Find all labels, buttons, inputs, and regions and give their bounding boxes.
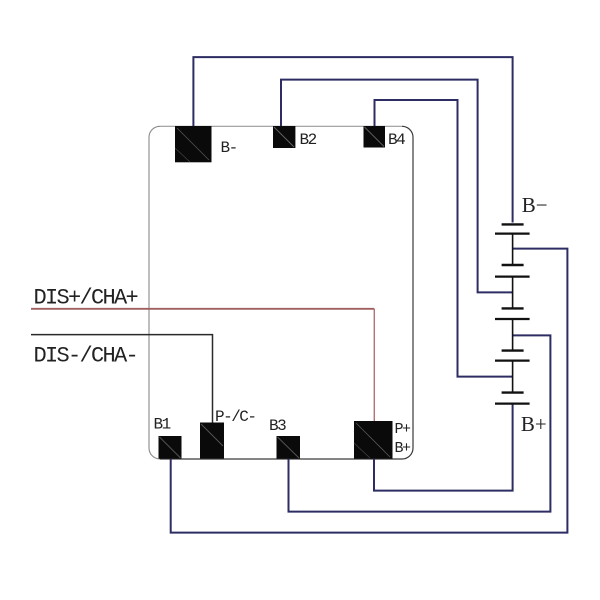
wire B4 net: pad B4 up, right, down to junction J4 — [375, 100, 513, 377]
wire B2 net: pad B2 up, right, down to junction J2 — [281, 80, 513, 293]
svg-text:B−: B− — [522, 193, 548, 217]
pad B2 — [273, 126, 295, 148]
pad B4 — [364, 126, 386, 148]
pad B- — [175, 126, 212, 162]
svg-text:B1: B1 — [154, 415, 171, 433]
svg-text:P-/C-: P-/C- — [215, 408, 256, 426]
wire B+ net: pad P+ down, right, up to battery bottom — [374, 404, 513, 491]
svg-text:B-: B- — [221, 139, 237, 157]
wire DIS+/CHA+ net (red): left edge to P+ pad — [31, 308, 374, 310]
battery cell BT2 — [495, 265, 530, 308]
svg-text:B4: B4 — [388, 131, 405, 149]
pad P+/B+ — [354, 421, 393, 459]
svg-text:DIS-/CHA-: DIS-/CHA- — [34, 343, 138, 368]
battery cell BT3 — [495, 308, 530, 350]
wire B3 net: pad B3 down, right, up to junction J3 — [289, 335, 551, 511]
svg-text:B3: B3 — [269, 417, 286, 435]
wire B- net: pad B- up and right to battery top — [193, 57, 512, 222]
wire B1 net: pad B1 down, right, up to junction J1 — [171, 249, 568, 533]
svg-text:DIS+/CHA+: DIS+/CHA+ — [34, 285, 138, 310]
battery cell BT4 — [495, 351, 530, 393]
BMS board outline — [149, 126, 413, 459]
pad B3 — [277, 436, 301, 459]
svg-text:B2: B2 — [300, 131, 317, 149]
svg-text:B+: B+ — [395, 440, 412, 457]
svg-text:B+: B+ — [521, 412, 547, 436]
battery cell BT5 (bottom, B+ side) — [495, 393, 530, 404]
battery cell BT1 (top, B- side) — [495, 224, 530, 265]
pad B1 — [159, 436, 182, 459]
wire DIS-/CHA- net (black): left edge to P-/C- pad — [31, 335, 213, 423]
svg-text:P+: P+ — [395, 421, 412, 438]
pad P-/C- — [200, 423, 224, 459]
